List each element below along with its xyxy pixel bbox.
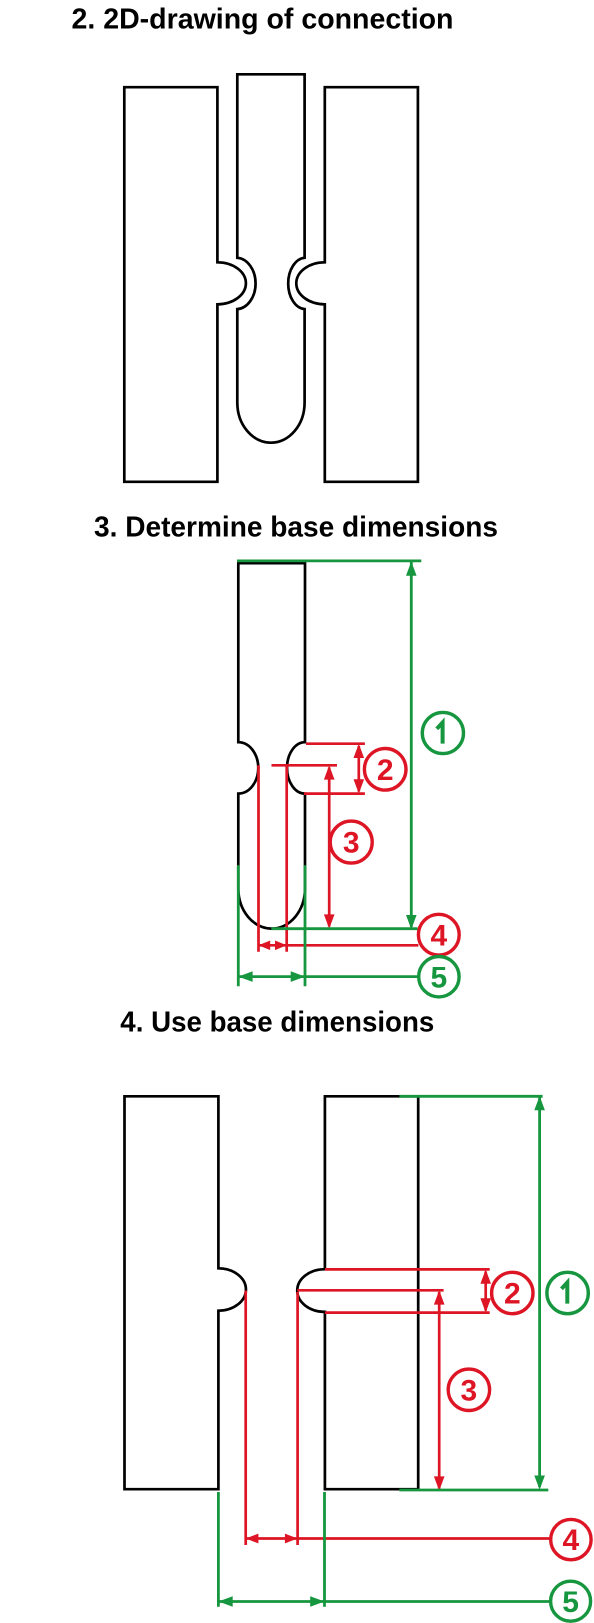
- svg-text:4. Use base dimensions: 4. Use base dimensions: [120, 1007, 434, 1039]
- svg-text:2. 2D-drawing of connection: 2. 2D-drawing of connection: [72, 4, 454, 36]
- svg-text:3: 3: [461, 1374, 478, 1407]
- svg-text:5: 5: [431, 961, 448, 994]
- svg-text:5: 5: [562, 1586, 579, 1619]
- svg-text:2: 2: [504, 1278, 521, 1311]
- svg-text:4: 4: [430, 919, 447, 952]
- svg-text:3: 3: [343, 827, 360, 860]
- svg-text:4: 4: [563, 1524, 580, 1557]
- svg-text:3. Determine base dimensions: 3. Determine base dimensions: [94, 512, 498, 544]
- svg-text:2: 2: [377, 754, 394, 787]
